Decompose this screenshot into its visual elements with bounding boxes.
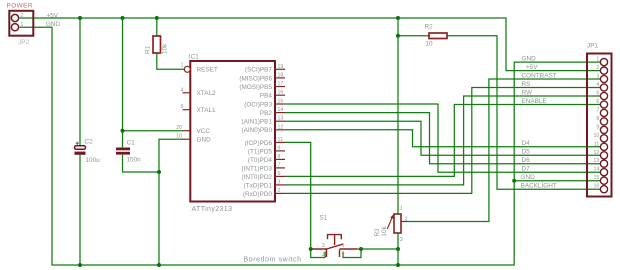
svg-text:1: 1 — [400, 206, 403, 212]
label D5 — [522, 149, 531, 156]
svg-text:(TxD)PD1: (TxD)PD1 — [244, 182, 273, 189]
node +5V / R1 — [155, 16, 159, 20]
svg-text:D5: D5 — [522, 149, 531, 156]
label 10k R3 — [381, 225, 388, 236]
svg-text:10: 10 — [426, 41, 434, 48]
label CONTRAST — [522, 72, 557, 79]
IC pin GND pin 10 — [176, 134, 190, 140]
label Boredom switch — [244, 256, 302, 263]
svg-text:3: 3 — [278, 179, 281, 185]
svg-text:16: 16 — [278, 90, 284, 96]
node switch left / PD6 — [309, 247, 313, 251]
svg-text:RW: RW — [522, 89, 533, 96]
svg-text:100u: 100u — [86, 157, 101, 164]
label 100n — [127, 157, 142, 164]
wire PB3 to D7 JP1 pin 14 — [285, 104, 600, 172]
wire +5V to C2 top — [79, 18, 81, 146]
switch S1 — [311, 235, 357, 259]
svg-text:(AIN0)PB0: (AIN0)PB0 — [241, 127, 272, 134]
label R2 — [425, 24, 434, 31]
label 100u — [86, 157, 101, 164]
node GND rail / C2 — [78, 263, 82, 267]
svg-text:15: 15 — [278, 99, 284, 105]
IC pin VCC pin 20 — [176, 125, 190, 131]
svg-text:2: 2 — [278, 188, 281, 194]
svg-text:10k: 10k — [381, 225, 388, 236]
svg-text:12: 12 — [594, 150, 600, 156]
svg-text:3: 3 — [400, 237, 403, 243]
JP1 pin circles and numbers — [600, 59, 607, 193]
svg-text:2: 2 — [596, 65, 599, 71]
svg-text:GND: GND — [46, 21, 61, 28]
svg-text:(ICP)PD6: (ICP)PD6 — [245, 140, 273, 147]
svg-text:Boredom switch: Boredom switch — [244, 256, 302, 263]
svg-text:BACKLIGHT: BACKLIGHT — [521, 183, 557, 190]
svg-text:6: 6 — [596, 99, 599, 105]
svg-text:16: 16 — [594, 184, 600, 190]
label IC1 — [189, 54, 199, 61]
node GND pin / C1 bottom — [157, 170, 161, 174]
svg-text:10k: 10k — [162, 43, 169, 54]
wire C2 bottom to GND rail — [79, 155, 81, 265]
svg-text:XTAL1: XTAL1 — [197, 107, 217, 114]
svg-text:(INT0)PD2: (INT0)PD2 — [241, 174, 272, 181]
label +5V pin2 — [526, 64, 538, 71]
IC pin PB7 pin 19 — [275, 64, 285, 70]
svg-text:9: 9 — [278, 145, 281, 151]
wire C1 bottom to GND junction — [123, 155, 160, 172]
svg-text:4: 4 — [596, 82, 599, 88]
label GND pin1 — [522, 56, 537, 63]
svg-text:7: 7 — [596, 107, 599, 113]
svg-text:CONTRAST: CONTRAST — [522, 72, 557, 79]
label GND pin15 — [521, 174, 536, 181]
svg-text:ENABLE: ENABLE — [522, 98, 547, 105]
connector JP2 — [9, 11, 33, 36]
IC U1 ATTiny2313 box — [190, 61, 275, 202]
wire R2 left — [398, 35, 429, 37]
svg-text:JP1: JP1 — [587, 43, 598, 50]
label +5V — [47, 12, 59, 19]
wire R1 bottom to RESET pin — [157, 53, 185, 69]
label D7 — [522, 166, 531, 173]
resistor R2 — [429, 33, 447, 39]
wire switch S1 right to R3 bottom — [357, 248, 398, 250]
svg-text:(SCI)PB7: (SCI)PB7 — [245, 67, 272, 74]
svg-text:18: 18 — [278, 72, 284, 78]
label POWER — [7, 2, 33, 9]
svg-text:RESET: RESET — [197, 67, 218, 74]
wire VCC pin 20 to +5V column — [123, 130, 184, 132]
wire +5V to R1 top — [156, 18, 158, 36]
svg-text:2: 2 — [405, 217, 408, 223]
svg-text:4: 4 — [322, 252, 325, 258]
svg-text:8: 8 — [278, 154, 281, 160]
node switch right — [359, 247, 363, 251]
svg-text:(MOSI)PB5: (MOSI)PB5 — [239, 84, 272, 91]
svg-text:1: 1 — [21, 22, 24, 28]
resistor R1 — [153, 36, 161, 53]
wire +5V to R2 and R3 column — [397, 18, 399, 214]
svg-text:D4: D4 — [522, 140, 531, 147]
node +5V / R2 column — [396, 16, 400, 20]
capacitor C1 — [116, 148, 130, 155]
label C1 — [127, 140, 136, 147]
svg-text:D7: D7 — [522, 166, 531, 173]
node +5V / C1 — [121, 16, 125, 20]
capacitor C2 — [75, 142, 86, 155]
svg-text:1: 1 — [342, 243, 345, 249]
label BACKLIGHT — [521, 183, 557, 190]
IC pin PB0 pin 12 — [275, 124, 285, 130]
svg-text:11: 11 — [594, 141, 599, 147]
svg-text:C1: C1 — [127, 140, 136, 147]
svg-text:5: 5 — [181, 104, 184, 110]
svg-text:XTAL2: XTAL2 — [197, 90, 217, 97]
svg-text:ATTiny2313: ATTiny2313 — [192, 206, 233, 213]
wire PD6 to switch S1 — [285, 142, 311, 249]
node switch row / R3 bottom — [396, 247, 400, 251]
svg-text:13: 13 — [594, 158, 600, 164]
svg-text:6: 6 — [278, 171, 281, 177]
svg-text:10: 10 — [176, 134, 182, 140]
IC pin RESET bubble pin 1 — [181, 62, 191, 72]
label RS — [522, 81, 531, 88]
svg-text:13: 13 — [278, 116, 284, 122]
svg-text:(AIN1)PB1: (AIN1)PB1 — [241, 119, 272, 126]
svg-text:12: 12 — [278, 124, 284, 130]
IC pin PD1 pin 3 — [275, 179, 285, 185]
svg-text:(RxD)PD0: (RxD)PD0 — [243, 191, 273, 198]
svg-text:20: 20 — [176, 125, 182, 131]
svg-text:4: 4 — [181, 87, 184, 93]
svg-text:17: 17 — [278, 81, 284, 87]
svg-text:C2: C2 — [85, 139, 94, 146]
svg-text:(INT1)PD3: (INT1)PD3 — [241, 165, 272, 172]
wire GND to JP1 pin 15 — [514, 180, 600, 182]
svg-text:RS: RS — [522, 81, 531, 88]
IC pin PD2 pin 6 — [275, 171, 285, 177]
label RW — [522, 89, 533, 96]
IC pin PB6 pin 18 — [275, 72, 285, 78]
wire PD2 to ENABLE JP1 pin 6 — [285, 105, 600, 177]
IC pin PD3 pin 7 — [275, 162, 285, 168]
IC pin PD5 pin 9 — [275, 145, 285, 151]
wire PB0 to D4 JP1 pin 11 — [285, 130, 600, 147]
svg-text:3: 3 — [322, 243, 325, 249]
svg-text:1: 1 — [596, 57, 599, 63]
svg-text:14: 14 — [594, 167, 600, 173]
node VCC / C1 — [121, 129, 125, 133]
label D4 — [522, 140, 531, 147]
IC pin PB1 pin 13 — [275, 116, 285, 122]
wire switch S1 right pin 2 under-route — [343, 249, 361, 258]
svg-text:14: 14 — [278, 107, 284, 113]
svg-text:PB4: PB4 — [260, 93, 273, 100]
wire PB1 to D5 JP1 pin 12 — [285, 121, 600, 155]
IC pin PD6 pin 11 — [275, 137, 285, 143]
svg-text:1: 1 — [181, 62, 184, 68]
label JP2 — [18, 39, 29, 46]
connector JP1 — [587, 54, 612, 197]
svg-text:GND: GND — [521, 174, 536, 181]
svg-text:7: 7 — [278, 162, 281, 168]
svg-text:2: 2 — [342, 252, 345, 258]
IC pin PB5 pin 17 — [275, 81, 285, 87]
label C2 — [85, 139, 94, 146]
wire +5V to C1 top — [122, 18, 124, 147]
node R2 / R3 top — [396, 34, 400, 38]
trimmer R3 — [387, 206, 408, 243]
label ENABLE — [522, 98, 547, 105]
svg-text:GND: GND — [522, 56, 537, 63]
svg-text:19: 19 — [278, 64, 284, 70]
label GND — [46, 21, 61, 28]
IC pin PB2 pin 14 — [275, 107, 285, 113]
wire PB2 to D6 JP1 pin 13 — [285, 113, 600, 164]
wire PD1 to RW JP1 pin 5 — [285, 96, 600, 185]
svg-text:100n: 100n — [127, 157, 142, 164]
svg-text:(T1)PD5: (T1)PD5 — [248, 148, 273, 155]
wire GND pin 10 down to GND rail — [159, 139, 183, 265]
svg-text:5: 5 — [596, 91, 599, 97]
svg-text:POWER: POWER — [7, 2, 33, 9]
node +5V / C2 — [78, 16, 82, 20]
node GND rail / R3 column — [396, 263, 400, 267]
IC pin PD0 pin 2 — [275, 188, 285, 194]
svg-text:GND: GND — [197, 137, 212, 144]
label 10 R2 — [426, 41, 434, 48]
svg-text:(MISO)PB6: (MISO)PB6 — [239, 75, 272, 82]
IC pin PB3 pin 15 — [275, 99, 285, 105]
label ATTiny2313 — [192, 206, 233, 213]
svg-text:D6: D6 — [522, 157, 531, 164]
svg-text:PB2: PB2 — [260, 110, 273, 117]
IC pin name texts right — [239, 67, 272, 198]
label S1 — [320, 215, 328, 222]
wire R3 bottom to GND rail — [397, 233, 399, 265]
IC pin XTAL2 pin 4 — [181, 87, 191, 93]
wire +5V top rail from JP2 pin 2 to JP1 pin 2 — [20, 18, 601, 71]
svg-text:JP2: JP2 — [18, 39, 29, 46]
svg-text:9: 9 — [596, 124, 599, 130]
svg-text:(T0)PD4: (T0)PD4 — [248, 157, 273, 164]
wire R3 wiper to CONTRAST JP1 pin 3 — [406, 79, 600, 222]
svg-text:8: 8 — [596, 116, 599, 122]
IC pin PB4 pin 16 — [275, 90, 285, 96]
wire PD0 to RS JP1 pin 4 — [285, 88, 600, 194]
IC pin name texts left — [197, 67, 218, 144]
svg-text:10: 10 — [594, 133, 600, 139]
node GND riser / JP1 pin 15 — [512, 179, 516, 183]
svg-text:VCC: VCC — [197, 128, 211, 135]
svg-text:+5V: +5V — [526, 64, 538, 71]
node GND rail / C1 column — [157, 263, 161, 267]
svg-text:15: 15 — [594, 175, 600, 181]
svg-text:(OCI)PB3: (OCI)PB3 — [244, 101, 272, 108]
label 10k R1 — [162, 43, 169, 54]
IC pin PD4 pin 8 — [275, 154, 285, 160]
wire R2 right to BACKLIGHT JP1 pin 16 — [447, 36, 600, 189]
svg-text:11: 11 — [278, 137, 283, 143]
svg-text:R2: R2 — [425, 24, 434, 31]
svg-text:+5V: +5V — [47, 12, 59, 19]
IC pin XTAL1 pin 5 — [181, 104, 191, 110]
label R1 — [144, 45, 151, 54]
label R3 — [374, 228, 381, 237]
svg-text:IC1: IC1 — [189, 54, 199, 61]
svg-text:R1: R1 — [144, 45, 151, 54]
wire switch S1 left pin 4 under-route — [311, 249, 325, 258]
svg-text:S1: S1 — [320, 215, 328, 222]
label JP1 — [587, 43, 598, 50]
svg-text:3: 3 — [596, 74, 599, 80]
label D6 — [522, 157, 531, 164]
svg-text:2: 2 — [21, 13, 24, 19]
